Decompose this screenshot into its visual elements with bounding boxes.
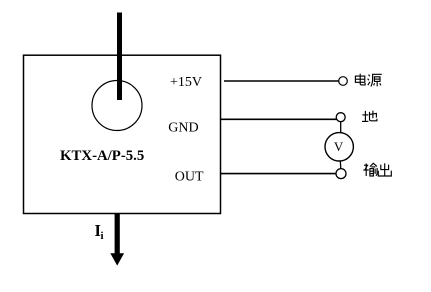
wire from voltmeter down to output terminal	[339, 161, 342, 168]
输 : 俞 part	[370, 163, 377, 166]
current arrow Ii out of sensor	[115, 214, 120, 255]
svg-text:GND: GND	[168, 121, 198, 136]
sensor box U1 KTX-A/P-5.5	[24, 55, 221, 213]
源	[369, 75, 370, 77]
svg-text:i: i	[101, 230, 104, 242]
terminal 输出 (output)	[336, 169, 346, 179]
wire +15V to power terminal	[224, 80, 339, 82]
svg-text:+15V: +15V	[170, 75, 202, 90]
svg-text:V: V	[334, 139, 344, 154]
voltmeter V	[325, 133, 353, 161]
terminal 电源 (power)	[339, 77, 348, 86]
wire from ground terminal down to voltmeter	[340, 122, 342, 134]
label 电源 (power) drawn as paths	[355, 74, 381, 87]
也	[369, 113, 377, 117]
输 : 车 radical	[364, 164, 368, 166]
出	[384, 163, 386, 176]
电	[360, 74, 365, 85]
label 地 (ground) drawn as paths	[362, 111, 377, 122]
primary conductor (thick wire into sensor)	[117, 13, 122, 101]
svg-text:KTX-A/P-5.5: KTX-A/P-5.5	[60, 148, 144, 164]
wire GND to ground terminal	[221, 118, 337, 120]
terminal 地 (ground)	[336, 113, 345, 122]
wire OUT to output terminal	[221, 173, 336, 175]
土 radical	[364, 111, 366, 122]
label 输出 (output) drawn as paths	[363, 163, 391, 176]
aperture circle of current sensor	[92, 81, 142, 131]
svg-text:OUT: OUT	[175, 170, 204, 185]
